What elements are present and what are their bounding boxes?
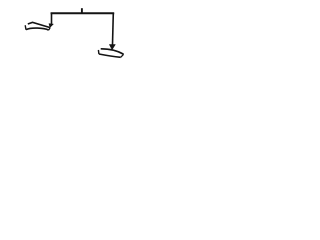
wire right vertical shaft <box>112 13 115 45</box>
left plate <box>25 22 50 30</box>
right plate <box>98 49 123 58</box>
right arrowhead <box>109 45 115 50</box>
tick on wire <box>81 8 83 13</box>
diagram: two tilted plates connected by a bent wire with arrows <box>0 0 150 68</box>
left arrowhead <box>49 24 54 28</box>
wire left vertical shaft <box>51 13 53 24</box>
wire horizontal segment <box>51 12 115 14</box>
